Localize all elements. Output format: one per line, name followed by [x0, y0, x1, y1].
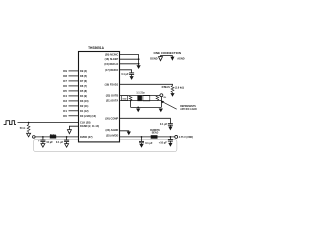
ground DGND open arrow	[67, 130, 71, 134]
wire	[69, 95, 79, 97]
svg-text:D5: D5	[63, 89, 67, 93]
node AVDD terminal	[175, 135, 178, 138]
svg-text:D4: D4	[63, 94, 67, 98]
ground AGND arrow	[168, 127, 172, 131]
wire	[69, 75, 79, 77]
svg-text:(22) OUTB: (22) OUTB	[106, 94, 119, 98]
svg-text:(21) OUTA: (21) OUTA	[106, 99, 118, 103]
svg-text:1:1 21Ω: 1:1 21Ω	[136, 92, 145, 95]
ground AGND arrow	[139, 144, 143, 148]
wire	[120, 58, 139, 60]
svg-text:(19) FSADJ: (19) FSADJ	[105, 82, 119, 86]
svg-text:REPRESENTS: REPRESENTS	[180, 106, 196, 108]
wire to rail	[160, 101, 162, 108]
wire circle stub	[160, 97, 162, 101]
node D7	[63, 79, 67, 83]
svg-text:D4 (9): D4 (9)	[80, 94, 87, 98]
svg-text:D5 (8): D5 (8)	[80, 89, 87, 93]
node DVDD terminal	[33, 136, 36, 139]
wire CLK	[18, 122, 79, 124]
wire	[69, 70, 79, 72]
svg-text:D9 (4): D9 (4)	[80, 69, 87, 73]
resistor R1 50ohm	[27, 123, 30, 134]
svg-text:(24) AGND: (24) AGND	[106, 128, 119, 132]
svg-text:(16) SLEEP: (16) SLEEP	[105, 57, 119, 61]
svg-text:D3: D3	[63, 99, 67, 103]
svg-text:0.1 µF: 0.1 µF	[145, 141, 153, 145]
svg-text:R BIAS: R BIAS	[162, 85, 170, 89]
ground open arrow	[65, 144, 69, 148]
svg-text:10 µF: 10 µF	[46, 140, 53, 144]
ground AGND arrow	[137, 65, 141, 69]
capacitor C6 10uF	[169, 137, 171, 140]
node D0	[63, 114, 67, 118]
ground DGND open arrow	[159, 57, 163, 61]
wire	[120, 100, 162, 102]
wire	[120, 130, 129, 133]
svg-text:D7 (6): D7 (6)	[80, 79, 87, 83]
svg-text:D8: D8	[63, 74, 67, 78]
junction	[170, 136, 172, 138]
transformer T1 winding	[143, 95, 150, 101]
wire ground rail	[131, 106, 162, 108]
wire	[120, 53, 139, 55]
junction	[137, 107, 139, 109]
junction	[130, 100, 132, 102]
wire	[69, 105, 79, 107]
svg-text:AGND: AGND	[177, 57, 185, 60]
svg-text:BEAD: BEAD	[152, 132, 159, 135]
junction	[141, 136, 143, 138]
wire	[120, 63, 139, 65]
wire bus to ground	[138, 54, 140, 65]
wire	[69, 126, 78, 130]
svg-text:(1.9 kΩ): (1.9 kΩ)	[175, 86, 184, 90]
capacitor C3 0.1uF	[129, 72, 134, 74]
resistor R4 load	[156, 96, 159, 101]
resistor RBIAS	[171, 86, 174, 94]
ground AGND arrow	[127, 132, 131, 136]
ground AGND arrow	[130, 76, 134, 80]
annotation load callout	[163, 102, 177, 109]
svg-text:D6: D6	[63, 84, 67, 88]
ground AGND arrow	[170, 93, 174, 97]
junction	[138, 58, 140, 60]
node D9	[63, 69, 67, 73]
svg-text:ANY R/C LOAD: ANY R/C LOAD	[180, 108, 197, 111]
wire	[120, 95, 161, 97]
op-amp U1	[79, 52, 120, 142]
svg-text:D3 (10): D3 (10)	[80, 99, 89, 103]
svg-text:(25) AVDD: (25) AVDD	[106, 134, 118, 138]
clock source	[4, 121, 16, 125]
ground DGND open arrow	[27, 133, 31, 137]
capacitor C5 0.1uF	[141, 137, 143, 141]
svg-text:(17) REFIO: (17) REFIO	[105, 68, 118, 72]
svg-text:D9: D9	[63, 69, 67, 73]
wire DVDD bus	[35, 136, 78, 138]
node D3	[63, 99, 67, 103]
svg-text:THS5651A: THS5651A	[88, 46, 104, 50]
svg-text:CLK (28): CLK (28)	[80, 120, 91, 124]
node D6	[63, 84, 67, 88]
svg-text:D7: D7	[63, 79, 67, 83]
svg-text:D2: D2	[63, 104, 67, 108]
wire riser	[130, 101, 132, 108]
junction	[138, 63, 140, 65]
svg-text:50 Ω: 50 Ω	[20, 126, 26, 130]
wire	[120, 84, 173, 85]
node D8	[63, 74, 67, 78]
ground open arrow	[41, 144, 45, 148]
svg-text:0.1 µF: 0.1 µF	[160, 122, 168, 126]
junction	[42, 136, 44, 138]
ground AGND arrow	[136, 109, 140, 113]
wire	[120, 70, 132, 73]
ground AGND arrow	[168, 143, 172, 147]
wire	[120, 118, 171, 123]
capacitor C2 0.1uF	[66, 137, 68, 140]
decoupling group outline box	[34, 140, 177, 152]
svg-text:BEAD: BEAD	[50, 133, 57, 136]
node D5	[63, 89, 67, 93]
node D2	[63, 104, 67, 108]
svg-text:(26) NC/NC: (26) NC/NC	[105, 52, 118, 56]
capacitor C1 10uF	[42, 137, 44, 140]
wire	[69, 115, 79, 117]
svg-text:D0 (LSB) (13): D0 (LSB) (13)	[80, 114, 96, 118]
capacitor C4 0.1uF	[168, 123, 173, 125]
svg-text:D2 (11): D2 (11)	[80, 104, 89, 108]
ground AGND arrow	[159, 109, 163, 113]
svg-text:ONE CONNECTION: ONE CONNECTION	[154, 51, 182, 55]
svg-text:(15) REFLO: (15) REFLO	[104, 62, 118, 66]
svg-text:0.1 µF: 0.1 µF	[56, 140, 64, 144]
wire	[69, 80, 79, 82]
svg-text:50Ω: 50Ω	[123, 97, 127, 100]
svg-text:+10 µF: +10 µF	[159, 140, 167, 144]
junction	[66, 136, 68, 138]
ferrite bead FB2	[151, 135, 158, 139]
transformer T1 winding	[137, 95, 142, 101]
wire	[69, 110, 79, 112]
ferrite bead FB1	[50, 135, 56, 138]
svg-text:D1 (12): D1 (12)	[80, 109, 89, 113]
wire AVDD bus	[120, 136, 175, 138]
svg-text:4.75 V (VDD): 4.75 V (VDD)	[179, 136, 193, 139]
node D4	[63, 94, 67, 98]
svg-text:D6 (7): D6 (7)	[80, 84, 87, 88]
resistor R3 bridging	[129, 96, 132, 101]
junction clock node	[28, 122, 30, 124]
wire	[69, 100, 79, 102]
node output terminal	[160, 94, 163, 97]
svg-text:DGND (2, 11-14): DGND (2, 11-14)	[80, 124, 99, 128]
node D1	[63, 109, 67, 113]
wire	[69, 85, 79, 87]
svg-text:DVDD (27): DVDD (27)	[80, 135, 93, 139]
svg-text:D0: D0	[63, 114, 67, 118]
svg-text:0.1 µF: 0.1 µF	[121, 72, 129, 76]
svg-text:(20) COMP: (20) COMP	[105, 116, 118, 120]
ground AGND arrow	[170, 57, 174, 61]
wire	[69, 90, 79, 92]
svg-text:DGND: DGND	[150, 57, 158, 60]
resistor R2 bridging	[121, 96, 127, 101]
svg-text:D1: D1	[63, 109, 67, 113]
svg-text:D8 (5): D8 (5)	[80, 74, 87, 78]
